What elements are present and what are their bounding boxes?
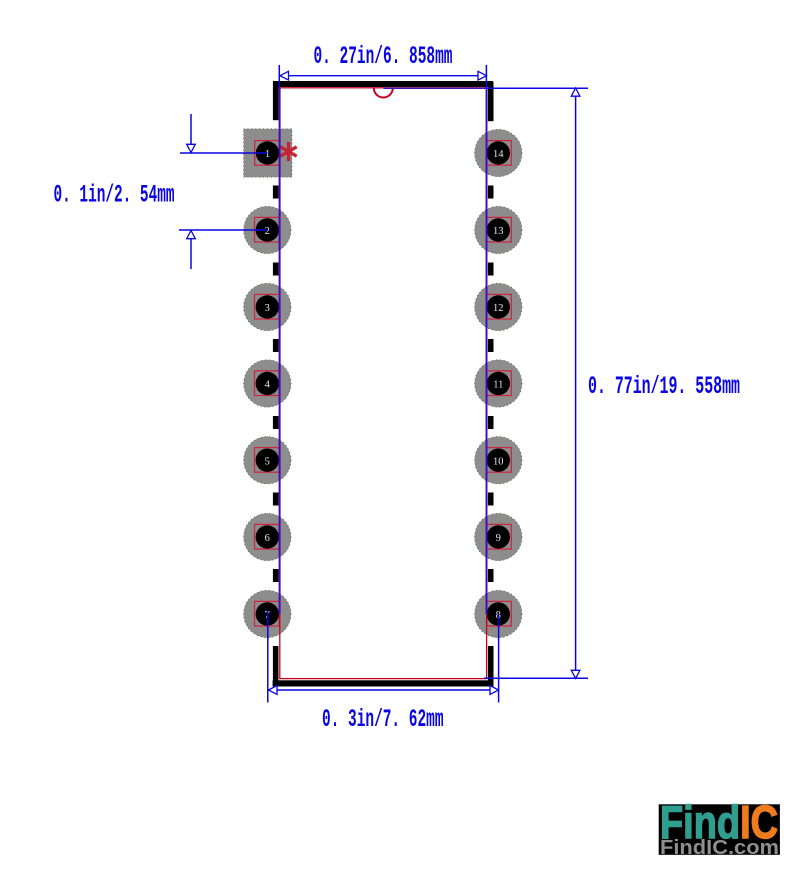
bottom dimension line (269, 689, 499, 691)
pad 13 (475, 206, 522, 253)
pad 10 (475, 437, 522, 484)
body right edge dash (bottom corner) (488, 646, 494, 687)
pad 9 (475, 513, 522, 560)
body left edge dash (3-4) (273, 339, 279, 352)
svg-text:12: 12 (493, 303, 504, 314)
bottom dimension arrow right (490, 686, 499, 695)
body outline bottom bar (black) (273, 680, 494, 686)
pad 12 (475, 283, 522, 330)
FindIC logo (659, 796, 780, 859)
body right edge dash (9-8) (488, 569, 494, 582)
body left edge dash (bottom corner) (273, 646, 279, 687)
body left edge dash (1-2) (273, 186, 279, 199)
svg-text:14: 14 (493, 149, 504, 160)
pitch dimension arrow up (187, 231, 196, 239)
svg-text:FindIC.com: FindIC.com (660, 837, 779, 859)
height dimension arrow up (571, 88, 580, 96)
height dimension arrow down (571, 670, 580, 678)
pad 3 (244, 283, 291, 330)
pitch dimension lower line (190, 231, 192, 269)
bottom dimension extension line right (blue) (498, 614, 500, 703)
pad 2 (244, 206, 291, 253)
body right edge dash (10-9) (488, 493, 494, 506)
pad 11 (475, 360, 522, 407)
pin1 marker asterisk (red) (280, 142, 296, 161)
svg-text:0. 27in/6. 858mm: 0. 27in/6. 858mm (314, 42, 453, 71)
svg-text:5: 5 (265, 456, 270, 467)
body outline top bar (black) (273, 81, 493, 87)
height dimension line (575, 88, 577, 679)
top dimension line (280, 75, 487, 77)
bottom dimension arrow left (269, 686, 278, 695)
svg-text:6: 6 (265, 533, 270, 544)
svg-text:11: 11 (493, 380, 503, 391)
pad 5 (244, 437, 291, 484)
svg-text:9: 9 (496, 533, 501, 544)
pad 8 (475, 590, 522, 637)
svg-text:0. 1in/2. 54mm: 0. 1in/2. 54mm (54, 181, 175, 210)
height dimension extension top (purple over red / blue) (384, 87, 487, 89)
svg-text:1: 1 (265, 149, 270, 160)
pad 1 (square) (244, 129, 292, 177)
body left edge dash (4-5) (273, 416, 279, 429)
top dimension arrow left (280, 71, 289, 80)
pad 6 (244, 513, 291, 560)
notch (red half-circle, top center) (374, 88, 393, 98)
pad 7 (244, 590, 291, 637)
svg-text:13: 13 (493, 226, 504, 237)
body right edge dash (top corner) (488, 82, 494, 121)
body left edge dash (5-6) (273, 493, 279, 506)
svg-text:0. 3in/7. 62mm: 0. 3in/7. 62mm (322, 705, 444, 734)
body right edge dash (13-12) (488, 263, 494, 276)
top dimension extension line left (blue/purple) (278, 65, 280, 88)
bottom dimension extension line left (blue) (267, 611, 269, 703)
body right edge dash (11-10) (488, 416, 494, 429)
pad 14 (475, 129, 522, 176)
svg-text:2: 2 (265, 226, 270, 237)
pitch dimension leader pin2 (blue) (179, 229, 267, 231)
body inner outline (red) (280, 88, 487, 679)
pad 4 (244, 360, 291, 407)
pitch dimension upper line (190, 114, 192, 152)
pitch dimension arrow down (187, 144, 196, 152)
body left edge dash (top corner) (273, 81, 279, 120)
pitch dimension leader pin1 (blue) (180, 152, 268, 154)
body left edge dash (2-3) (273, 263, 279, 276)
body right edge dash (12-11) (488, 339, 494, 352)
body right edge dash (14-13) (488, 186, 494, 199)
svg-text:0. 77in/19. 558mm: 0. 77in/19. 558mm (588, 372, 740, 401)
body left edge dash (6-7) (273, 569, 279, 582)
top dimension arrow right (478, 71, 487, 80)
svg-text:3: 3 (265, 303, 270, 314)
svg-text:4: 4 (265, 380, 271, 391)
height dimension extension bottom (blue) (484, 677, 588, 679)
svg-text:10: 10 (493, 456, 504, 467)
top dimension extension line right (blue/purple) (485, 65, 487, 88)
